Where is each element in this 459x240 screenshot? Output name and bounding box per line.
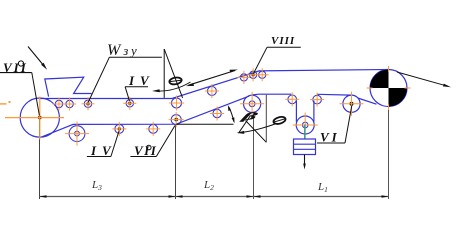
crest roller 2: [247, 68, 260, 81]
return incline roller: [210, 107, 224, 121]
drive pulley pull arrow: [397, 72, 451, 87]
material feed arrow: [28, 47, 47, 70]
drive pulley centerline ticks: [367, 66, 411, 110]
carrying roller 1: [53, 98, 66, 111]
label L1: [317, 181, 328, 194]
svg-text:L2: L2: [203, 179, 214, 192]
label VII (hold-down roller): [130, 126, 175, 159]
carrying roller 2: [63, 98, 76, 111]
take-up guide pulley right: [310, 93, 324, 107]
carrying roller 4: [123, 97, 136, 110]
drive pulley: [370, 70, 407, 107]
label IV (carrying roller): [125, 73, 155, 101]
rotation symbol at incline foot: [169, 77, 182, 86]
svg-text:Wзу: Wзу: [107, 42, 140, 59]
label IV (return roller): [87, 131, 119, 158]
return roller 2: [112, 122, 126, 136]
take-up guide pulley left: [285, 92, 299, 106]
dimension extension line at tail pulley: [39, 118, 41, 199]
auxiliary lines below bend pulley: [239, 95, 267, 143]
return roller 3: [146, 122, 160, 136]
hold-down roller at valley: [169, 112, 184, 127]
dimension arrows at x=253: [247, 195, 261, 197]
curved arrow at incline foot: [152, 82, 191, 92]
snub roller at drive pulley: [340, 92, 364, 116]
incline angle arc with arrowheads: [228, 105, 235, 124]
rotation symbol near take-up: [273, 116, 287, 126]
svg-text:VIII: VIII: [271, 35, 295, 47]
tail pulley centerlines: [5, 97, 64, 140]
loading hopper: [45, 77, 92, 96]
curved arrow near take-up: [237, 124, 276, 134]
dimension arrow left end L3: [40, 195, 47, 197]
svg-text:IV: IV: [128, 73, 155, 88]
dimension arrows at x=175: [169, 195, 183, 197]
take-up weight box: [294, 139, 316, 155]
return roller large near tail: [65, 122, 89, 146]
label VIII (crest rollers): [253, 35, 300, 74]
dimension extension line at bend pulley: [253, 112, 255, 199]
return belt run upper horizontal to take-up: [252, 93, 351, 96]
take-up pulley: [293, 113, 318, 138]
take-up hanger (teal): [304, 125, 306, 140]
label Wzu (loading device): [88, 42, 162, 102]
crest roller 1: [237, 71, 250, 84]
tail pulley: [20, 98, 59, 137]
svg-text:L1: L1: [317, 181, 328, 194]
belt travel arrow on incline: [186, 70, 238, 87]
transition roller at incline foot: [169, 96, 184, 111]
belt from snub roller to drive pulley: [358, 98, 377, 104]
label VI (snub roller): [317, 106, 352, 145]
dimension extension line at drive pulley: [388, 107, 390, 199]
carrying roller 3 (loading point): [82, 97, 95, 110]
label L2: [203, 179, 214, 192]
weight force arrow: [303, 155, 306, 170]
bend pulley at incline head: [240, 92, 264, 116]
incline roller: [205, 84, 219, 98]
label beta (incline angle): [239, 111, 260, 122]
stray orange tick left edge: [0, 101, 11, 105]
label L3: [91, 179, 102, 192]
angle mark at incline foot: vertical and slant lines: [164, 49, 182, 98]
label VII (tail pulley): [0, 60, 39, 116]
svg-text:VII: VII: [134, 143, 157, 158]
upper belt run (carrying): [40, 70, 389, 99]
incline angle reference line (horizontal): [176, 123, 233, 125]
return belt run lower horizontal: [42, 96, 249, 137]
crest roller 3: [256, 68, 269, 81]
dimension extension line at lower bend roller: [175, 125, 177, 199]
svg-text:VI: VI: [320, 130, 340, 145]
svg-text:L3: L3: [91, 179, 102, 192]
dimension arrow right end L1: [382, 195, 389, 197]
dimension line: [40, 196, 389, 198]
take-up belt loop verticals: [296, 101, 314, 122]
